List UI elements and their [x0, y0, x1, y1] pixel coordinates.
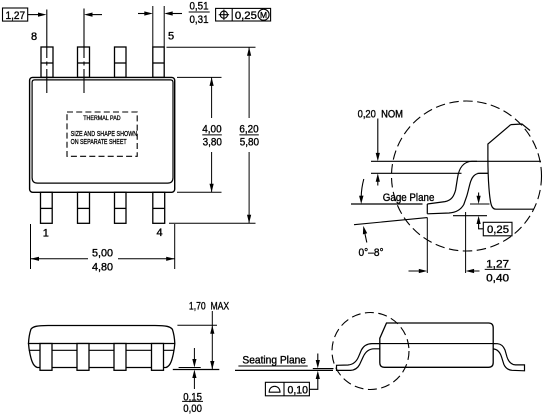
Seating Plane label underline [238, 365, 307, 367]
seating stub under foot [453, 215, 487, 217]
seating line right of side view [173, 369, 220, 371]
pin 3 [115, 192, 127, 223]
pin 2 [78, 192, 90, 223]
side view pin 1 [40, 344, 52, 371]
svg-text:5: 5 [168, 31, 174, 43]
svg-text:3,80: 3,80 [203, 136, 222, 148]
fraction bars [182, 12, 510, 401]
svg-text:1: 1 [43, 227, 49, 239]
svg-text:0,00: 0,00 [183, 403, 202, 415]
left lead (end view) [337, 344, 380, 371]
gage plane line [351, 203, 423, 205]
dimension 1,27 box and leader [3, 8, 103, 21]
svg-text:ON SEPARATE SHEET: ON SEPARATE SHEET [71, 137, 127, 146]
svg-text:1,27: 1,27 [486, 259, 509, 271]
svg-text:4: 4 [157, 227, 163, 239]
right lead (end view) [493, 344, 524, 371]
flatness zone upper line [313, 368, 334, 370]
svg-text:0,20 NOM: 0,20 NOM [358, 109, 403, 121]
svg-text:4,80: 4,80 [92, 262, 113, 274]
seating plane angled line 0-8 deg [354, 218, 427, 225]
end view parting line [380, 343, 493, 345]
lead inner curve (foot bottom to body) [427, 173, 488, 214]
dimension 0,51/0,31 arrows and extension lines [138, 6, 182, 47]
svg-text:6,20: 6,20 [239, 123, 258, 135]
dimension 6,20/5,80 [167, 47, 256, 223]
thermal pad dashed outline [67, 112, 137, 156]
svg-text:0,40: 0,40 [486, 273, 509, 285]
lead bottom plane line right stub [478, 172, 489, 174]
package body inner outline [32, 80, 173, 183]
pin 1 (bottom row leftmost) [41, 192, 53, 223]
dimension 5,00/4,80 [31, 224, 175, 269]
dimension 4,00/3,80 [177, 77, 222, 192]
svg-text:0,25: 0,25 [487, 224, 509, 236]
svg-text:1,27: 1,27 [6, 10, 26, 22]
svg-text:0,31: 0,31 [190, 14, 209, 26]
lead bottom plane line [371, 172, 462, 174]
side view mold line upper [28, 343, 175, 345]
pin 6 [115, 47, 127, 77]
lead foot tip [426, 204, 428, 214]
dimension 0,15/0,00 [192, 348, 196, 389]
gage plane stub at lead [470, 203, 490, 205]
seating plane line [235, 369, 333, 371]
svg-text:5,00: 5,00 [92, 248, 113, 260]
svg-text:0°–8°: 0°–8° [359, 247, 384, 259]
feature control frame 0,25 M [216, 8, 271, 21]
svg-text:0,10: 0,10 [288, 384, 309, 396]
side view body outline [29, 326, 175, 368]
lead top plane line [371, 160, 541, 162]
pin 5 [153, 47, 164, 77]
pin 7 centerline [83, 9, 85, 94]
dimension 0,25 (gage to seating) [477, 193, 513, 236]
pin 4 [153, 192, 165, 223]
svg-text:Seating Plane: Seating Plane [242, 355, 306, 367]
lead outer curve (foot top to shoulder) [427, 161, 477, 204]
dimension 0,10 flatness [265, 354, 320, 396]
side view mold line lower [29, 349, 174, 351]
body bottom extension line [179, 367, 201, 369]
angle dimension arcs/arrows [359, 179, 367, 243]
side view pin 3 [114, 344, 126, 371]
side view pin 2 [77, 344, 89, 371]
pin 8 centerline [46, 10, 48, 94]
thermal pad text [71, 115, 138, 146]
svg-text:M: M [260, 10, 267, 20]
svg-text:0,51: 0,51 [190, 1, 209, 13]
svg-text:Gage Plane: Gage Plane [383, 192, 435, 204]
detail dashed circle around left lead [332, 313, 409, 390]
dimension 1,27/0,40 [409, 212, 480, 273]
body edge in detail [488, 125, 534, 210]
svg-text:4,00: 4,00 [202, 123, 221, 135]
dimension 0,20 NOM arrows [376, 119, 380, 186]
svg-text:1,70 MAX: 1,70 MAX [189, 301, 230, 313]
detail dashed circle [392, 101, 542, 251]
package body outer outline [30, 77, 175, 192]
svg-text:5,80: 5,80 [240, 136, 259, 148]
dimension 1,70 MAX [177, 311, 217, 370]
svg-text:THERMAL PAD: THERMAL PAD [83, 115, 121, 122]
side view pin 4 [152, 344, 164, 371]
pin 7 [78, 47, 90, 77]
svg-text:8: 8 [31, 31, 37, 43]
svg-text:0,25: 0,25 [235, 10, 257, 22]
end view body [380, 323, 493, 367]
pin 8 (top row leftmost) [41, 47, 53, 77]
